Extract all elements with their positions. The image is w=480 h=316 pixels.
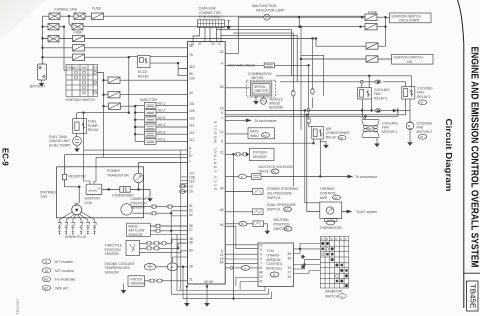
svg-text:54: 54 — [220, 261, 224, 265]
svg-text:: With A/C: : With A/C — [53, 286, 69, 290]
svg-text:(TRANS-: (TRANS- — [267, 253, 280, 257]
svg-text:22: 22 — [211, 42, 215, 46]
svg-text:34: 34 — [220, 187, 224, 191]
svg-text:21: 21 — [189, 278, 193, 282]
svg-text:21: 21 — [218, 42, 222, 46]
svg-text:105: 105 — [189, 109, 195, 113]
svg-text:Circuit Diagram: Circuit Diagram — [444, 119, 453, 192]
svg-text:: A/T models: : A/T models — [53, 260, 73, 264]
svg-text:AC: AC — [285, 208, 290, 212]
svg-text:OXYGEN: OXYGEN — [253, 151, 268, 155]
svg-text:COIL: COIL — [85, 201, 93, 205]
svg-text:N: N — [331, 237, 333, 241]
svg-text:ON: ON — [82, 66, 87, 70]
svg-text:110: 110 — [189, 131, 195, 135]
svg-text:114: 114 — [189, 124, 195, 128]
svg-text:32: 32 — [220, 50, 224, 54]
svg-text:SENSOR: SENSOR — [253, 155, 268, 159]
svg-text:FUSE: FUSE — [74, 31, 84, 35]
svg-text:M: M — [408, 124, 411, 128]
svg-text:SENSOR: SENSOR — [105, 252, 120, 256]
svg-text:38: 38 — [189, 241, 193, 245]
svg-text:BATTERY: BATTERY — [30, 85, 46, 89]
svg-text:11: 11 — [220, 130, 224, 134]
svg-text:NO.5: NO.5 — [158, 116, 166, 120]
svg-text:6: 6 — [260, 253, 262, 257]
svg-text:4: 4 — [221, 62, 223, 66]
svg-text:THERMO: THERMO — [320, 187, 335, 191]
svg-text:: M/T models: : M/T models — [53, 269, 74, 273]
svg-text:ON or START: ON or START — [399, 19, 420, 23]
svg-text:CONTROL: CONTROL — [267, 262, 283, 266]
svg-text:THERMISTOR: THERMISTOR — [319, 226, 342, 230]
svg-text:AU: AU — [44, 278, 49, 282]
svg-text:INHIBITOR: INHIBITOR — [325, 290, 343, 294]
svg-text:ST: ST — [93, 66, 97, 70]
svg-text:MISSION: MISSION — [267, 258, 282, 262]
svg-text:SWITCH: SWITCH — [267, 208, 281, 212]
svg-text:TB02357: TB02357 — [15, 298, 20, 315]
svg-text:14: 14 — [259, 244, 263, 248]
svg-text:AC: AC — [334, 196, 339, 200]
svg-text:IACV-FICD SOLENOID: IACV-FICD SOLENOID — [259, 165, 295, 169]
svg-text:IGNITION SWITCH: IGNITION SWITCH — [66, 98, 96, 102]
svg-text:20: 20 — [189, 190, 193, 194]
svg-text:DUAL-PRESSURE: DUAL-PRESSURE — [267, 203, 297, 207]
svg-text:27: 27 — [288, 271, 292, 275]
svg-text:TB45E: TB45E — [468, 284, 475, 309]
svg-text:103: 103 — [189, 116, 195, 120]
svg-text:TRANSISTOR: TRANSISTOR — [107, 173, 129, 177]
svg-text:AC: AC — [272, 170, 277, 174]
svg-text:9: 9 — [221, 139, 223, 143]
svg-text:NO.3: NO.3 — [158, 130, 166, 134]
svg-text:7: 7 — [260, 262, 262, 266]
svg-text:53: 53 — [220, 85, 224, 89]
svg-text:NO.1: NO.1 — [158, 102, 166, 106]
svg-text:116: 116 — [189, 179, 195, 183]
svg-text:CONTROL: CONTROL — [320, 192, 337, 196]
svg-text:35: 35 — [288, 257, 292, 261]
svg-text:28: 28 — [189, 265, 193, 269]
svg-text:INDICATOR LAMP: INDICATOR LAMP — [256, 9, 285, 13]
svg-text:76: 76 — [189, 53, 193, 57]
svg-text:AC: AC — [339, 136, 344, 140]
svg-text:METER: METER — [252, 76, 264, 80]
svg-text:NO.2: NO.2 — [158, 109, 166, 113]
svg-text:ACC: ACC — [72, 66, 79, 70]
svg-text:21: 21 — [220, 151, 224, 155]
svg-text:INJECTOR: INJECTOR — [140, 98, 157, 102]
svg-text:FOR CONSULT: FOR CONSULT — [199, 15, 223, 19]
svg-text:36: 36 — [189, 224, 193, 228]
svg-text:OMETER: OMETER — [254, 89, 269, 93]
svg-text:POWER STEERING: POWER STEERING — [267, 187, 298, 191]
svg-text:SPARK PLUG: SPARK PLUG — [65, 235, 87, 239]
svg-text:5: 5 — [260, 248, 262, 252]
svg-text:To compressor: To compressor — [356, 175, 379, 179]
svg-text:50 60: 50 60 — [204, 280, 213, 284]
svg-text:VALVE: VALVE — [259, 170, 270, 174]
svg-text:56: 56 — [288, 252, 292, 256]
svg-text:NO.4: NO.4 — [158, 123, 166, 127]
svg-text:AC: AC — [44, 286, 49, 290]
svg-text:M: M — [241, 222, 244, 226]
svg-text:AU: AU — [263, 133, 267, 137]
svg-text:TCM: TCM — [267, 249, 274, 253]
svg-text:NEUTRAL: NEUTRAL — [274, 218, 290, 222]
svg-text:42: 42 — [259, 280, 263, 284]
svg-text:M: M — [45, 269, 48, 273]
svg-text:(FUEL PUMP): (FUEL PUMP) — [49, 143, 71, 147]
svg-text:10: 10 — [259, 275, 263, 279]
svg-text:RELAY: RELAY — [138, 74, 150, 78]
svg-text:34: 34 — [288, 266, 292, 270]
svg-text:M: M — [286, 227, 289, 231]
svg-text:41: 41 — [259, 266, 263, 270]
svg-text:7: 7 — [221, 117, 223, 121]
svg-text:To A/C system: To A/C system — [356, 210, 377, 214]
svg-text:MODULE): MODULE) — [267, 267, 282, 271]
svg-text:D: D — [335, 237, 337, 241]
svg-text:OIL PRESSURE: OIL PRESSURE — [267, 192, 293, 196]
svg-text:10: 10 — [189, 185, 193, 189]
svg-text:26: 26 — [288, 275, 292, 279]
svg-text:SENSOR: SENSOR — [105, 270, 120, 274]
svg-text:POSITION: POSITION — [274, 223, 291, 227]
svg-text:51: 51 — [189, 204, 193, 208]
svg-text:SWITCH: SWITCH — [267, 196, 281, 200]
svg-text:109: 109 — [189, 77, 195, 81]
svg-text:SENSOR: SENSOR — [131, 206, 146, 210]
svg-text:F: F — [241, 175, 243, 179]
svg-text:RELAY: RELAY — [326, 135, 338, 139]
svg-text:SENSOR: SENSOR — [269, 106, 284, 110]
svg-text:ON: ON — [407, 60, 413, 64]
svg-text:MOTOR-2: MOTOR-2 — [417, 130, 433, 134]
svg-text:RELAY-1: RELAY-1 — [374, 96, 388, 100]
svg-text:27: 27 — [189, 228, 193, 232]
svg-text:415: 415 — [189, 65, 195, 69]
svg-text:5: 5 — [260, 257, 262, 261]
svg-text:46: 46 — [220, 208, 224, 212]
svg-text:EC-9: EC-9 — [1, 148, 10, 166]
svg-text:TOR: TOR — [40, 195, 48, 199]
svg-text:SENSOR: SENSOR — [131, 282, 146, 286]
svg-text:RELAY-2: RELAY-2 — [417, 95, 431, 99]
svg-text:FUSE: FUSE — [92, 7, 102, 11]
svg-text:AMP.: AMP. — [320, 196, 328, 200]
svg-text:59: 59 — [189, 72, 193, 76]
svg-text:SWITCH: SWITCH — [325, 294, 339, 298]
svg-text:15: 15 — [191, 42, 195, 46]
svg-text:42: 42 — [189, 213, 193, 217]
svg-text:R: R — [326, 237, 328, 241]
svg-text:To tachometer: To tachometer — [255, 119, 278, 123]
svg-text:FUSIBLE LINK: FUSIBLE LINK — [55, 8, 78, 12]
svg-text:P: P — [321, 237, 323, 241]
svg-text:5: 5 — [221, 111, 223, 115]
svg-text:IMMU: IMMU — [250, 134, 259, 138]
svg-text:B: B — [377, 80, 379, 84]
svg-text:47: 47 — [198, 42, 202, 46]
svg-text:101: 101 — [189, 102, 195, 106]
svg-text:43: 43 — [189, 91, 193, 95]
svg-text:50: 50 — [189, 249, 193, 253]
svg-text:RELAY: RELAY — [88, 128, 100, 132]
svg-text:1: 1 — [189, 159, 191, 163]
svg-text:M: M — [420, 135, 423, 139]
svg-text:SENSOR: SENSOR — [128, 233, 143, 237]
svg-text:52: 52 — [189, 209, 193, 213]
svg-text:M: M — [420, 101, 423, 105]
svg-text:ENGINE AND EMISSION CONTROL OV: ENGINE AND EMISSION CONTROL OVERALL SYST… — [468, 47, 479, 268]
svg-text:NO.6: NO.6 — [158, 138, 166, 142]
svg-text:48: 48 — [259, 271, 263, 275]
svg-text:44: 44 — [220, 223, 224, 227]
svg-text:57: 57 — [189, 154, 193, 158]
svg-text:MOTOR-1: MOTOR-1 — [382, 130, 398, 134]
svg-text:: For Australia: : For Australia — [53, 278, 75, 282]
svg-text:112: 112 — [189, 138, 195, 142]
